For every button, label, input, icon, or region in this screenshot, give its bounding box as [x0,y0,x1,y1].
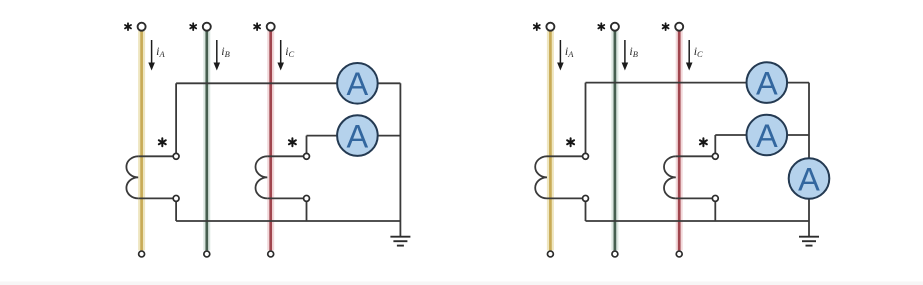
wire: CT-C to ammeter A2 (right) [715,134,767,136]
polarity mark phase B top (left) [190,23,196,30]
wire: ammeter A1 to right vertical (right) [767,82,809,84]
terminal: phase C top (left) [267,23,275,31]
svg-text:A: A [756,118,778,154]
CT secondary winding on phase A (left) [126,156,138,198]
wire: CT-A top terminal to top bus (right) [585,83,587,157]
wire: CT-A winding top lead (right) [547,155,586,157]
wire: right vertical lower segment below A3 (right) [808,198,810,221]
terminal: CT-C secondary k (right) [712,153,718,159]
wire: CT-C to ammeter A2 (left) [307,135,358,137]
terminal: phase C bottom (right) [676,251,682,257]
phase A conductor L1 (right) [547,31,554,250]
terminal: CT-C secondary k (left) [304,153,310,159]
CT secondary winding on phase A (right) [535,156,547,198]
wire: CT-C top terminal riser (right) [714,135,716,156]
wire: top bus to ammeter A1 (right) [586,82,767,84]
wire: CT-C top terminal riser (left) [306,136,308,157]
terminal: phase A bottom (right) [547,251,553,257]
wire: ground stub (left) [399,221,401,237]
wire: CT-C bottom terminal to bus (right) [714,198,716,221]
polarity mark CT-C secondary (right) [700,138,707,146]
current arrow ia (left) [148,40,155,71]
polarity mark phase C top (right) [663,23,669,30]
ammeter A2 (right) [747,115,788,156]
terminal: CT-A secondary l (right) [583,195,589,201]
wire: right vertical (left) [399,83,401,221]
polarity mark phase C top (left) [254,23,260,30]
phase C conductor L3 (right) [676,31,683,250]
ammeter A2 (left) [337,115,378,156]
wire: top bus to ammeter A1 (left) [176,82,357,84]
terminal: CT-C secondary l (right) [712,195,718,201]
terminal: phase A top (right) [546,23,554,31]
CT secondary winding on phase C (right) [664,156,676,198]
terminal: phase A top (left) [138,23,146,31]
wire: CT-A bottom terminal to bus (right) [585,198,587,221]
polarity mark phase B top (right) [598,23,604,30]
polarity mark phase A top (right) [534,23,540,30]
wire: bottom return bus (right) [586,220,810,222]
terminal: phase B bottom (left) [204,251,210,257]
svg-text:A: A [347,66,369,102]
polarity mark CT-A secondary (right) [567,138,574,146]
ammeter A3 (right) [789,158,830,199]
polarity mark CT-C secondary (left) [289,138,296,146]
terminal: phase C bottom (left) [268,251,274,257]
current arrow ib (left) [214,40,221,71]
terminal: phase B top (left) [203,23,211,31]
wire: CT-A winding top lead (left) [138,155,176,157]
current arrow ia (right) [557,40,564,71]
terminal: phase A bottom (left) [139,251,145,257]
wire: CT-A top terminal to top bus (left) [175,83,177,156]
CT secondary winding on phase C (left) [256,156,268,198]
wire: CT-C winding top lead (right) [676,155,716,157]
phase B conductor L2 (left) [203,31,210,250]
current arrow ic (right) [686,40,693,71]
phase B conductor L2 (right) [611,31,618,250]
wire: CT-A winding bottom lead (right) [547,197,586,199]
phase C conductor L3 (left) [267,31,274,250]
terminal: phase C top (right) [675,23,683,31]
polarity mark CT-A secondary (left) [159,138,166,146]
wire: CT-A bottom terminal to bus (left) [175,198,177,221]
svg-text:A: A [756,66,778,102]
wire: CT-C winding top lead (left) [267,155,306,157]
terminal: CT-A secondary l (left) [173,195,179,201]
wire: right vertical upper segment (right) [808,83,810,160]
wire: ammeter A1 to right vertical (left) [357,82,400,84]
wire: CT-A winding bottom lead (left) [138,197,176,199]
current arrow ib (right) [622,40,629,71]
terminal: CT-A secondary k (left) [173,153,179,159]
ammeter A1 (right) [747,62,788,103]
ground symbol (left) [390,237,410,246]
wire: ground stub (right) [808,221,810,237]
current arrow ic (left) [277,40,284,71]
ammeter A1 (left) [337,63,378,104]
ground symbol (right) [799,237,819,246]
wire: CT-C bottom terminal to bus (left) [306,198,308,221]
faint band at bottom edge [0,282,923,285]
phase A conductor L1 (left) [138,31,145,250]
wire: ammeter A2 to right vertical (right) [767,134,809,136]
polarity mark phase A top (left) [125,23,131,30]
wire: CT-C winding bottom lead (left) [267,197,306,199]
terminal: CT-C secondary l (left) [304,195,310,201]
terminal: CT-A secondary k (right) [583,153,589,159]
svg-text:A: A [798,161,820,197]
wire: ammeter A2 to right vertical (left) [357,135,400,137]
svg-text:A: A [347,119,369,155]
wire: bottom return bus (left) [176,220,400,222]
terminal: phase B bottom (right) [612,251,618,257]
wire: CT-C winding bottom lead (right) [676,197,716,199]
terminal: phase B top (right) [611,23,619,31]
